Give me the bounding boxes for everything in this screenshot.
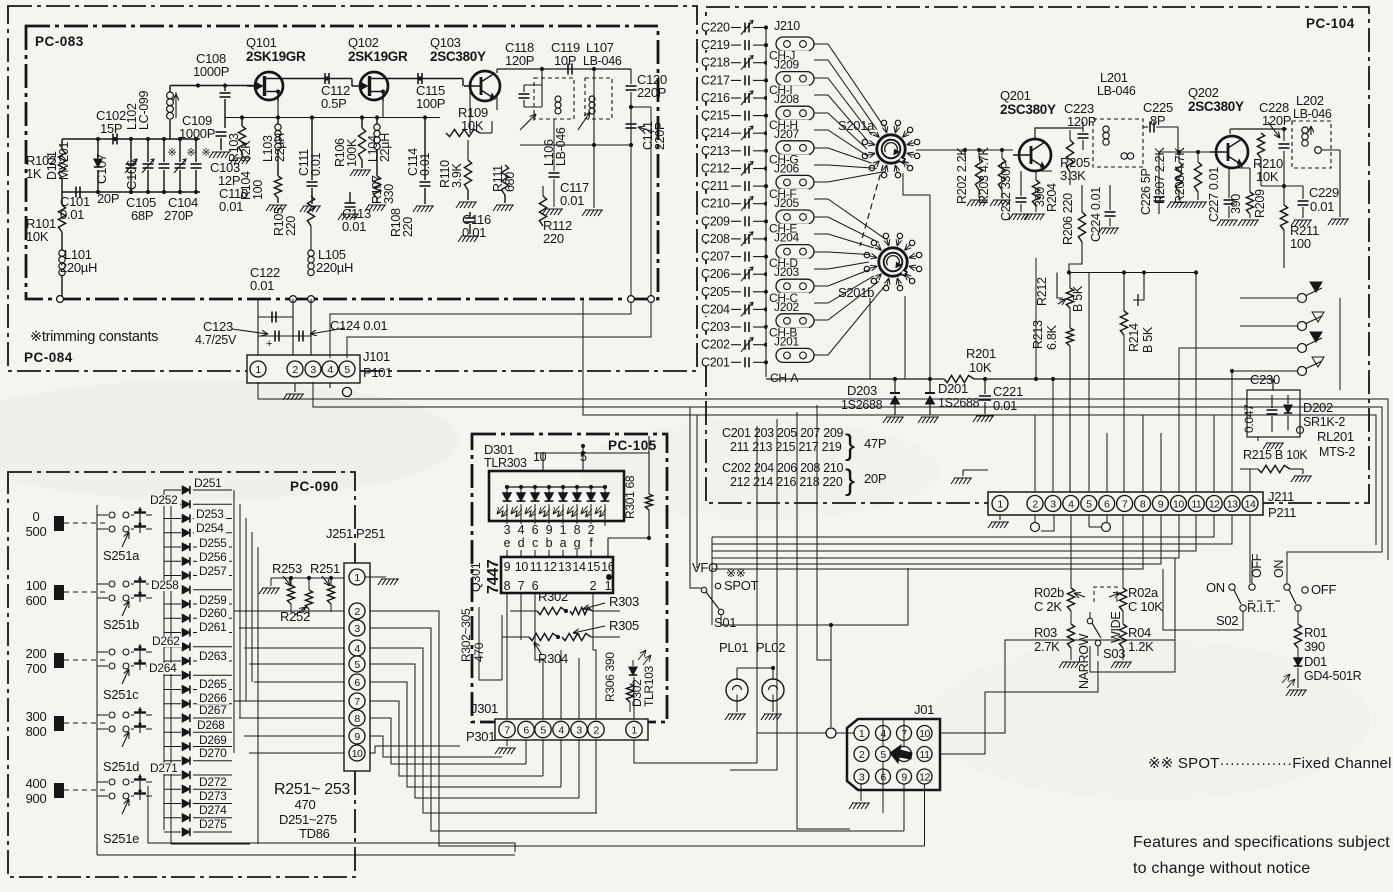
- svg-text:S03: S03: [1103, 646, 1125, 661]
- svg-text:S251b: S251b: [103, 617, 139, 632]
- svg-text:C206: C206: [701, 267, 730, 281]
- svg-text:12: 12: [919, 771, 930, 783]
- svg-text:1S2688: 1S2688: [938, 396, 980, 410]
- svg-text:220P: 220P: [637, 85, 666, 100]
- svg-text:0.01: 0.01: [560, 193, 584, 208]
- svg-text:15P: 15P: [100, 121, 122, 136]
- svg-text:VFO: VFO: [692, 560, 718, 575]
- svg-text:PC-104: PC-104: [1306, 16, 1355, 31]
- svg-text:PC-083: PC-083: [35, 34, 84, 49]
- svg-text:※: ※: [168, 147, 177, 159]
- svg-text:D260: D260: [199, 606, 227, 620]
- svg-text:5: 5: [354, 659, 360, 671]
- svg-text:2: 2: [292, 364, 298, 376]
- svg-text:390: 390: [1229, 194, 1243, 214]
- svg-text:C203: C203: [701, 320, 730, 334]
- svg-text:10: 10: [352, 748, 363, 760]
- svg-text:R302~305: R302~305: [459, 608, 473, 662]
- svg-text:J202: J202: [774, 300, 799, 314]
- svg-text:220P: 220P: [653, 122, 667, 150]
- svg-text:120P: 120P: [1067, 114, 1096, 129]
- svg-text:C124 0.01: C124 0.01: [330, 318, 387, 333]
- svg-text:R.I.T.: R.I.T.: [1247, 600, 1276, 615]
- svg-text:J210: J210: [774, 19, 800, 33]
- svg-text:2: 2: [354, 606, 360, 618]
- svg-text:220µH: 220µH: [316, 260, 353, 275]
- svg-text:D259: D259: [199, 593, 227, 607]
- svg-text:P211: P211: [1268, 505, 1296, 520]
- svg-text:C229: C229: [1309, 185, 1339, 200]
- svg-text:C227 0.01: C227 0.01: [1207, 167, 1221, 222]
- svg-text:Features and specifications su: Features and specifications subject: [1133, 834, 1390, 851]
- svg-text:10K: 10K: [1256, 169, 1279, 184]
- svg-text:S251a: S251a: [103, 548, 140, 563]
- svg-text:J101: J101: [363, 349, 390, 364]
- svg-text:0.047: 0.047: [1242, 404, 1256, 433]
- svg-text:J301: J301: [471, 701, 498, 716]
- svg-text:4: 4: [354, 643, 360, 655]
- svg-text:Q201: Q201: [1000, 88, 1031, 103]
- svg-text:R252: R252: [280, 609, 310, 624]
- svg-text:5: 5: [880, 749, 886, 761]
- svg-text:220: 220: [543, 231, 564, 246]
- svg-text:10: 10: [919, 728, 930, 740]
- svg-text:3: 3: [310, 364, 316, 376]
- svg-text:C213: C213: [701, 144, 730, 158]
- svg-text:R212: R212: [1035, 277, 1049, 306]
- svg-text:D262: D262: [152, 634, 180, 648]
- svg-text:220: 220: [284, 216, 298, 236]
- svg-text:1: 1: [997, 498, 1003, 510]
- svg-text:MTS-2: MTS-2: [1319, 445, 1355, 459]
- svg-text:D267: D267: [199, 703, 227, 717]
- svg-text:470: 470: [295, 797, 316, 812]
- svg-text:J208: J208: [774, 92, 799, 106]
- svg-text:9: 9: [901, 771, 907, 783]
- svg-text:R301 68: R301 68: [623, 475, 637, 519]
- svg-text:1K: 1K: [26, 166, 42, 181]
- svg-text:C201 203 205 207 209: C201 203 205 207 209: [722, 426, 844, 440]
- svg-text:R208 4.7K: R208 4.7K: [1173, 147, 1187, 204]
- svg-text:12: 12: [1209, 498, 1220, 510]
- svg-text:10: 10: [515, 560, 529, 574]
- svg-text:1: 1: [354, 572, 360, 584]
- svg-text:47P: 47P: [864, 436, 886, 451]
- svg-text:9: 9: [1158, 498, 1164, 510]
- svg-text:100: 100: [26, 578, 47, 593]
- svg-text:PC-090: PC-090: [290, 479, 339, 494]
- svg-text:600: 600: [26, 593, 47, 608]
- svg-text:C221: C221: [993, 384, 1023, 399]
- svg-text:a: a: [560, 536, 567, 550]
- svg-text:e: e: [504, 536, 511, 550]
- svg-text:J01: J01: [914, 702, 934, 717]
- svg-text:R213: R213: [1031, 320, 1045, 349]
- svg-text:D273: D273: [199, 789, 227, 803]
- svg-text:LB-046: LB-046: [1097, 84, 1136, 98]
- svg-text:P301: P301: [466, 729, 495, 744]
- svg-text:R306 390: R306 390: [603, 652, 617, 702]
- svg-text:10K: 10K: [969, 360, 992, 375]
- svg-text:120P: 120P: [1262, 113, 1291, 128]
- svg-text:11: 11: [920, 749, 931, 761]
- svg-text:}: }: [845, 464, 855, 497]
- svg-text:ON: ON: [1272, 560, 1286, 578]
- svg-text:9: 9: [504, 560, 511, 574]
- svg-text:C207: C207: [701, 250, 730, 264]
- svg-text:9: 9: [354, 731, 360, 743]
- svg-text:4.7/25V: 4.7/25V: [195, 333, 237, 347]
- svg-text:S201b: S201b: [838, 285, 874, 300]
- svg-text:200: 200: [26, 646, 47, 661]
- svg-text:100: 100: [251, 180, 265, 200]
- svg-text:Q101: Q101: [246, 35, 277, 50]
- svg-text:220: 220: [401, 217, 415, 237]
- svg-text:C202 204 206 208 210: C202 204 206 208 210: [722, 461, 844, 475]
- svg-text:5: 5: [540, 724, 546, 736]
- svg-text:C222 330P: C222 330P: [999, 161, 1013, 221]
- svg-text:R214: R214: [1127, 323, 1141, 352]
- svg-text:D264: D264: [149, 661, 177, 675]
- svg-text:C210: C210: [701, 197, 730, 211]
- svg-text:1S2688: 1S2688: [841, 398, 883, 412]
- svg-text:0.01: 0.01: [309, 153, 323, 176]
- svg-text:0.01: 0.01: [250, 278, 274, 293]
- svg-text:C202: C202: [701, 338, 730, 352]
- svg-text:3.3K: 3.3K: [1060, 168, 1086, 183]
- svg-text:300: 300: [26, 709, 47, 724]
- svg-text:1: 1: [560, 523, 567, 537]
- svg-text:2SC380Y: 2SC380Y: [430, 49, 486, 64]
- svg-text:SR1K-2: SR1K-2: [1303, 415, 1345, 429]
- svg-text:7447: 7447: [485, 559, 502, 594]
- svg-text:0: 0: [33, 509, 40, 524]
- svg-text:1000P: 1000P: [193, 64, 229, 79]
- svg-text:11: 11: [1191, 498, 1202, 510]
- svg-text:D275: D275: [199, 817, 227, 831]
- svg-text:LC-099: LC-099: [137, 90, 151, 130]
- svg-text:C212: C212: [701, 162, 730, 176]
- svg-text:6: 6: [1104, 498, 1110, 510]
- svg-text:C208: C208: [701, 232, 730, 246]
- svg-text:3.9K: 3.9K: [450, 163, 464, 188]
- svg-text:4: 4: [327, 364, 333, 376]
- svg-text:D265: D265: [199, 677, 227, 691]
- svg-text:C 10K: C 10K: [1128, 599, 1163, 614]
- svg-text:RL201: RL201: [1317, 429, 1354, 444]
- svg-text:D252: D252: [150, 493, 178, 507]
- svg-text:D251: D251: [194, 476, 222, 490]
- svg-text:R251~ 253: R251~ 253: [274, 781, 350, 798]
- svg-text:6: 6: [532, 523, 539, 537]
- svg-text:PC-084: PC-084: [24, 350, 73, 365]
- svg-text:NARROW: NARROW: [1077, 633, 1091, 689]
- svg-text:D257: D257: [199, 564, 227, 578]
- svg-text:C220: C220: [701, 21, 730, 35]
- svg-text:5: 5: [344, 364, 350, 376]
- svg-text:S251c: S251c: [103, 687, 139, 702]
- svg-text:4: 4: [518, 523, 525, 537]
- svg-text:Q202: Q202: [1188, 85, 1219, 100]
- svg-text:8: 8: [354, 713, 360, 725]
- svg-text:PL02: PL02: [756, 640, 785, 655]
- svg-text:J251: J251: [326, 526, 353, 541]
- svg-text:D254: D254: [196, 521, 224, 535]
- svg-text:GD4-501R: GD4-501R: [1304, 669, 1362, 683]
- svg-text:R04: R04: [1128, 625, 1151, 640]
- svg-text:R207 2.2K: R207 2.2K: [1153, 147, 1167, 204]
- svg-text:3: 3: [504, 523, 511, 537]
- svg-text:R253: R253: [272, 561, 302, 576]
- svg-text:R02a: R02a: [1128, 585, 1159, 600]
- svg-text:LB-046: LB-046: [1293, 107, 1332, 121]
- svg-text:7: 7: [518, 579, 525, 593]
- svg-text:0.5P: 0.5P: [321, 96, 347, 111]
- svg-text:R02b: R02b: [1034, 585, 1064, 600]
- svg-text:3: 3: [354, 623, 360, 635]
- svg-text:D261: D261: [199, 620, 227, 634]
- svg-text:8: 8: [574, 523, 581, 537]
- svg-text:b: b: [546, 536, 553, 550]
- svg-text:10: 10: [1173, 498, 1184, 510]
- svg-text:R305: R305: [609, 618, 639, 633]
- svg-text:8P: 8P: [1150, 113, 1165, 128]
- svg-text:0.01: 0.01: [219, 199, 243, 214]
- svg-text:0.01: 0.01: [342, 219, 366, 234]
- svg-text:C230: C230: [1250, 372, 1280, 387]
- svg-text:J205: J205: [774, 196, 799, 210]
- svg-text:390: 390: [1304, 639, 1325, 654]
- svg-text:※: ※: [187, 147, 196, 159]
- svg-text:R01: R01: [1304, 625, 1327, 640]
- svg-text:C205: C205: [701, 285, 730, 299]
- svg-text:1: 1: [605, 579, 612, 593]
- svg-text:C224 0.01: C224 0.01: [1089, 187, 1103, 242]
- svg-text:D203: D203: [847, 383, 877, 398]
- svg-text:7: 7: [504, 724, 510, 736]
- svg-text:J204: J204: [774, 231, 799, 245]
- svg-text:D01: D01: [1304, 654, 1327, 669]
- svg-text:800: 800: [26, 724, 47, 739]
- svg-text:4: 4: [1068, 498, 1074, 510]
- svg-text:J209: J209: [774, 58, 799, 72]
- svg-text:C 2K: C 2K: [1034, 599, 1062, 614]
- svg-text:500: 500: [26, 524, 47, 539]
- svg-text:g: g: [574, 536, 581, 550]
- svg-text:2: 2: [1032, 498, 1038, 510]
- svg-text:3: 3: [859, 771, 865, 783]
- svg-text:C215: C215: [701, 109, 730, 123]
- svg-text:C201: C201: [701, 355, 730, 369]
- svg-text:J203: J203: [774, 265, 799, 279]
- svg-text:6.8K: 6.8K: [1045, 325, 1059, 350]
- svg-text:8: 8: [504, 579, 511, 593]
- svg-text:20P: 20P: [864, 471, 886, 486]
- svg-text:L202: L202: [1296, 93, 1324, 108]
- svg-text:D301: D301: [484, 442, 514, 457]
- svg-text:330: 330: [382, 184, 396, 204]
- svg-text:D268: D268: [197, 718, 225, 732]
- svg-text:2SK19GR: 2SK19GR: [348, 49, 408, 64]
- svg-text:+: +: [266, 338, 272, 350]
- svg-text:2SC380Y: 2SC380Y: [1188, 99, 1244, 114]
- svg-text:15: 15: [587, 560, 601, 574]
- svg-text:R202 2.2K: R202 2.2K: [955, 147, 969, 204]
- svg-text:10P: 10P: [554, 53, 576, 68]
- svg-text:1.2K: 1.2K: [1128, 639, 1154, 654]
- svg-text:R201: R201: [966, 346, 996, 361]
- svg-text:10: 10: [533, 450, 547, 464]
- svg-text:S201a: S201a: [838, 118, 875, 133]
- svg-text:to change without notice: to change without notice: [1133, 860, 1310, 877]
- svg-text:ON: ON: [1206, 580, 1225, 595]
- svg-text:C214: C214: [701, 126, 730, 140]
- svg-text:D272: D272: [199, 775, 227, 789]
- svg-text:R204: R204: [1045, 183, 1059, 212]
- svg-text:C217: C217: [701, 73, 730, 87]
- svg-text:C218: C218: [701, 56, 730, 70]
- svg-text:0.01: 0.01: [993, 398, 1017, 413]
- svg-text:R304: R304: [538, 651, 568, 666]
- svg-text:10K: 10K: [26, 229, 49, 244]
- svg-text:c: c: [532, 536, 538, 550]
- svg-text:S251e: S251e: [103, 831, 139, 846]
- svg-text:D274: D274: [199, 803, 227, 817]
- svg-text:R215 B 10K: R215 B 10K: [1243, 448, 1308, 462]
- svg-text:Q102: Q102: [348, 35, 379, 50]
- svg-text:R209: R209: [1253, 189, 1267, 218]
- svg-text:C204: C204: [701, 302, 730, 316]
- svg-text:L201: L201: [1100, 70, 1128, 85]
- svg-text:R03: R03: [1034, 625, 1057, 640]
- svg-text:CH-A: CH-A: [770, 371, 798, 385]
- svg-text:B 5K: B 5K: [1071, 285, 1085, 312]
- svg-text:OFF: OFF: [1311, 582, 1336, 597]
- svg-text:211 213 215 217 219: 211 213 215 217 219: [730, 440, 842, 454]
- svg-text:D255: D255: [199, 536, 227, 550]
- svg-text:L107: L107: [586, 40, 614, 55]
- svg-text:1: 1: [859, 728, 865, 740]
- svg-text:12: 12: [544, 560, 558, 574]
- svg-text:P251: P251: [356, 526, 385, 541]
- svg-text:16: 16: [601, 560, 615, 574]
- svg-text:C123: C123: [203, 319, 233, 334]
- svg-text:D253: D253: [196, 507, 224, 521]
- svg-text:S02: S02: [1216, 613, 1238, 628]
- svg-text:900: 900: [26, 791, 47, 806]
- svg-text:2: 2: [593, 724, 599, 736]
- svg-text:B 5K: B 5K: [1141, 326, 1155, 353]
- svg-text:2: 2: [590, 579, 597, 593]
- svg-text:J206: J206: [774, 161, 799, 175]
- svg-text:400: 400: [26, 776, 47, 791]
- svg-text:2.7K: 2.7K: [1034, 639, 1060, 654]
- svg-text:7: 7: [354, 696, 360, 708]
- svg-text:14: 14: [1245, 498, 1256, 510]
- svg-text:270P: 270P: [164, 208, 193, 223]
- svg-text:PL01: PL01: [719, 640, 748, 655]
- svg-text:3: 3: [1050, 498, 1056, 510]
- svg-text:R303: R303: [609, 594, 639, 609]
- svg-text:4: 4: [558, 724, 564, 736]
- svg-text:9: 9: [546, 523, 553, 537]
- svg-text:C219: C219: [701, 38, 730, 52]
- svg-text:R302: R302: [538, 589, 568, 604]
- svg-text:20P: 20P: [97, 191, 119, 206]
- svg-text:68P: 68P: [131, 208, 153, 223]
- svg-text:7: 7: [1122, 498, 1128, 510]
- svg-text:S251d: S251d: [103, 759, 139, 774]
- svg-text:D251~275: D251~275: [279, 812, 337, 827]
- svg-text:TLR103: TLR103: [642, 665, 656, 707]
- svg-text:LB-046: LB-046: [554, 127, 568, 166]
- svg-text:6: 6: [354, 677, 360, 689]
- svg-text:100P: 100P: [416, 96, 445, 111]
- svg-text:d: d: [518, 536, 525, 550]
- svg-text:120P: 120P: [505, 53, 534, 68]
- svg-text:D270: D270: [199, 746, 227, 760]
- svg-text:R251: R251: [310, 561, 340, 576]
- svg-text:5: 5: [1086, 498, 1092, 510]
- svg-text:212 214 216 218 220: 212 214 216 218 220: [730, 475, 843, 489]
- svg-text:Q103: Q103: [430, 35, 461, 50]
- svg-text:R203 4.7K: R203 4.7K: [977, 147, 991, 204]
- svg-text:R206 220: R206 220: [1061, 193, 1075, 245]
- svg-text:100: 100: [1290, 236, 1311, 251]
- svg-text:700: 700: [26, 661, 47, 676]
- svg-text:100K: 100K: [345, 138, 359, 167]
- svg-text:2SC380Y: 2SC380Y: [1000, 102, 1056, 117]
- svg-text:TLR303: TLR303: [484, 456, 527, 470]
- svg-text:D256: D256: [199, 550, 227, 564]
- svg-text:J201: J201: [774, 334, 799, 348]
- svg-text:C209: C209: [701, 214, 730, 228]
- svg-text:TD86: TD86: [299, 826, 330, 841]
- svg-text:0.01: 0.01: [462, 225, 486, 240]
- svg-text:※trimming constants: ※trimming constants: [30, 329, 158, 345]
- svg-text:※※ SPOT··············Fixed Ch: ※※ SPOT··············Fixed Channel: [1148, 755, 1392, 772]
- svg-text:D269: D269: [199, 733, 227, 747]
- svg-text:J207: J207: [774, 127, 799, 141]
- svg-text:2: 2: [859, 749, 865, 761]
- svg-text:}: }: [845, 429, 855, 462]
- svg-text:2: 2: [588, 523, 595, 537]
- svg-text:D258: D258: [151, 578, 179, 592]
- svg-text:C216: C216: [701, 91, 730, 105]
- svg-text:C226 5P: C226 5P: [1139, 168, 1153, 215]
- svg-text:13: 13: [1227, 498, 1238, 510]
- svg-text:S01: S01: [714, 615, 736, 630]
- svg-text:J211: J211: [1268, 489, 1294, 504]
- svg-text:0.01: 0.01: [1310, 199, 1334, 214]
- svg-text:D271: D271: [150, 761, 178, 775]
- svg-text:8: 8: [1140, 498, 1146, 510]
- svg-text:13: 13: [558, 560, 572, 574]
- svg-text:3: 3: [576, 724, 582, 736]
- svg-text:P101: P101: [363, 365, 392, 380]
- svg-text:2SK19GR: 2SK19GR: [246, 49, 306, 64]
- svg-text:Q301: Q301: [469, 562, 483, 592]
- svg-text:14: 14: [572, 560, 586, 574]
- svg-text:LB-046: LB-046: [583, 54, 622, 68]
- svg-text:D201: D201: [938, 381, 968, 396]
- svg-text:C211: C211: [701, 179, 729, 193]
- svg-text:SPOT: SPOT: [724, 578, 759, 593]
- svg-text:D263: D263: [199, 649, 227, 663]
- svg-text:11: 11: [530, 560, 543, 574]
- svg-text:1: 1: [631, 724, 637, 736]
- svg-text:1: 1: [255, 364, 261, 376]
